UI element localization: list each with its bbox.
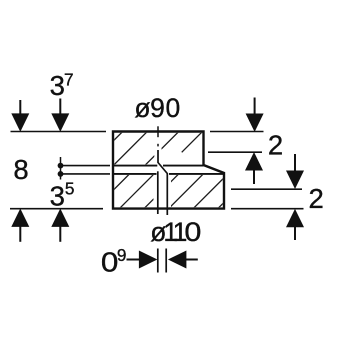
dimension 8 line bbox=[60, 157, 62, 180]
svg-text:2: 2 bbox=[309, 183, 324, 214]
hatching upper and lower body bbox=[12, 124, 303, 218]
extension line bottom-left bbox=[10, 208, 103, 210]
dimension 3/7 arrow right bbox=[52, 99, 68, 131]
centerline tick above body bbox=[157, 126, 159, 137]
dimension 8 dots bbox=[58, 163, 64, 177]
svg-text:3: 3 bbox=[50, 70, 65, 101]
svg-text:ø: ø bbox=[134, 93, 150, 123]
svg-text:0: 0 bbox=[101, 246, 119, 277]
extension line top-left bbox=[11, 131, 107, 133]
svg-text:0: 0 bbox=[184, 217, 201, 247]
label diameter 110 bbox=[150, 217, 201, 247]
dimension 2 upper: down arrow bbox=[246, 98, 262, 131]
dimension 3/7 arrow left bbox=[12, 100, 28, 131]
dimension 2 upper: extension lines bbox=[208, 132, 264, 153]
dimension 2 upper: up arrow bbox=[246, 153, 262, 184]
dimension 8 extension lines bbox=[62, 166, 110, 174]
dimension 0/9 right-pointing arrow bbox=[127, 251, 157, 267]
svg-text:9: 9 bbox=[117, 245, 127, 265]
dimension 2 lower: extension lines bbox=[231, 189, 304, 209]
dimension 0/9 tick lines bbox=[158, 249, 166, 273]
label diameter 90 bbox=[134, 93, 180, 123]
svg-text:0: 0 bbox=[166, 93, 181, 123]
svg-text:3: 3 bbox=[50, 181, 65, 212]
white gap band at break lines bbox=[154, 133, 172, 207]
dimension 3/5 arrow left bbox=[12, 210, 28, 242]
svg-text:8: 8 bbox=[13, 154, 28, 185]
dimension 2 lower: down arrow bbox=[287, 154, 303, 188]
inner line 2 (lower wall top) bbox=[113, 173, 224, 175]
inner line 1 (upper wall bottom) bbox=[113, 165, 204, 167]
svg-text:9: 9 bbox=[150, 93, 165, 123]
dimension 0/9 left-pointing arrow bbox=[169, 251, 198, 267]
body outline bbox=[113, 132, 224, 209]
second break line bbox=[157, 171, 159, 214]
dimension 2 lower: up arrow bbox=[287, 210, 303, 240]
centerline dot bbox=[157, 144, 159, 147]
dimension 3/5 arrow right bbox=[52, 210, 68, 242]
svg-text:7: 7 bbox=[64, 70, 74, 90]
svg-text:2: 2 bbox=[268, 130, 283, 161]
svg-text:5: 5 bbox=[65, 178, 75, 198]
break line with jog bbox=[158, 150, 167, 215]
